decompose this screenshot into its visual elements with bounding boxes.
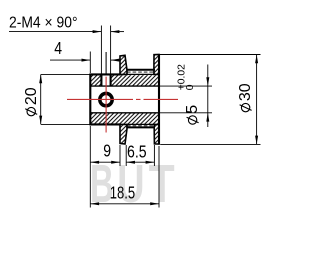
- dim phi20: dimension line: [40, 74, 42, 124]
- dim phi20: extension top: [41, 73, 90, 75]
- dim phi5: arrow up to bottom line: [206, 113, 209, 122]
- M4 tapped hole left edge: [100, 74, 102, 86]
- extension line M4 hole left: [100, 26, 102, 74]
- dim 18.5: dimension line: [90, 203, 159, 205]
- bore bottom line: [90, 112, 159, 114]
- dim 18.5: arrows: [90, 202, 99, 205]
- svg-text:30: 30: [237, 83, 254, 101]
- extension line hub left above: [89, 52, 91, 74]
- tooth OD bottom line: [126, 126, 155, 128]
- hatch: bottom band full width: [90, 113, 159, 125]
- tooth strip right closure bottom: [153, 124, 155, 127]
- dim 9: arrows: [90, 161, 99, 164]
- dim 9: right extension: [119, 145, 121, 166]
- dim phi20: label: [23, 87, 40, 116]
- svg-text:0: 0: [185, 84, 196, 90]
- arrow left at M4 right edge with tail: [111, 31, 124, 33]
- dim 6.5: right extension: [153, 145, 155, 166]
- bore top line: [90, 85, 159, 87]
- M4 side hole circle: [100, 93, 112, 105]
- hub left face: [89, 74, 91, 126]
- tooth root top line: [127, 73, 155, 75]
- red vertical centerline of M4 holes: [105, 77, 107, 133]
- dim phi5: extension top: [160, 85, 213, 87]
- right flange foot hatched: [154, 124, 159, 144]
- dim phi30: arrows: [255, 55, 258, 64]
- svg-text:4: 4: [54, 38, 62, 58]
- svg-text:T: T: [149, 154, 175, 214]
- tooth dashed line bottom: [127, 125, 154, 127]
- black centerline extension above hub: [105, 52, 107, 74]
- watermark BDT: [90, 153, 175, 214]
- svg-text:5: 5: [184, 105, 201, 114]
- dim phi30: label: [237, 83, 254, 112]
- dim phi5: extension bottom: [160, 112, 213, 114]
- left flange foot hatched: [120, 124, 127, 144]
- tooth OD top line: [126, 69, 155, 71]
- tooth root bottom line: [127, 123, 155, 125]
- dim phi5: arrow down to top line: [206, 77, 209, 86]
- svg-text:20: 20: [23, 87, 40, 105]
- arrow left at M4 right edge with tail: [111, 59, 121, 61]
- svg-text:9: 9: [103, 141, 111, 161]
- dim 18.5: right extension: [158, 146, 160, 208]
- hatch: top band right of M4 hole (body): [112, 75, 160, 86]
- dim phi5: label: [177, 64, 202, 124]
- tooth strip left closure top: [126, 70, 128, 75]
- dim 6.5: arrows: [126, 161, 135, 164]
- arrow right at hub left face: [82, 59, 91, 62]
- tooth strip right closure top: [153, 70, 155, 75]
- arrow right at M4 left edge: [93, 30, 102, 33]
- dim 9: left extension (shared with 18.5): [89, 126, 91, 208]
- tooth strip left closure bottom: [126, 124, 128, 127]
- red horizontal axis centerline: [67, 98, 178, 100]
- dim phi30: extension top: [160, 54, 261, 56]
- hatch: hub top band left of M4 hole: [90, 75, 100, 86]
- right flange lip hatched: [154, 55, 159, 75]
- dim phi5: dimension line vertical: [207, 65, 209, 128]
- hub bottom line: [90, 123, 121, 125]
- tooth dashed line top: [127, 71, 154, 73]
- extension line M4 hole right: [110, 26, 112, 74]
- dim phi30: dimension line: [256, 55, 258, 145]
- svg-text:2-M4 × 90°: 2-M4 × 90°: [9, 15, 78, 32]
- dim 6.5: dimension line: [126, 161, 154, 163]
- svg-text:6.5: 6.5: [127, 142, 147, 162]
- M4 tapped hole right edge: [110, 74, 112, 86]
- body right face: [158, 55, 160, 145]
- dim phi30: extension bottom: [160, 143, 260, 145]
- svg-text:18.5: 18.5: [110, 182, 135, 202]
- dim phi20: extension bottom: [41, 123, 90, 125]
- dimension 2-M4x90: leader line: [9, 31, 101, 33]
- dim 9: dimension line: [90, 161, 120, 163]
- dim phi20: arrows: [39, 74, 42, 83]
- dim 6.5: left extension: [125, 145, 127, 166]
- left flange lip hatched: [120, 55, 127, 74]
- hub top line: [90, 73, 121, 75]
- dimension 4: line: [50, 59, 90, 61]
